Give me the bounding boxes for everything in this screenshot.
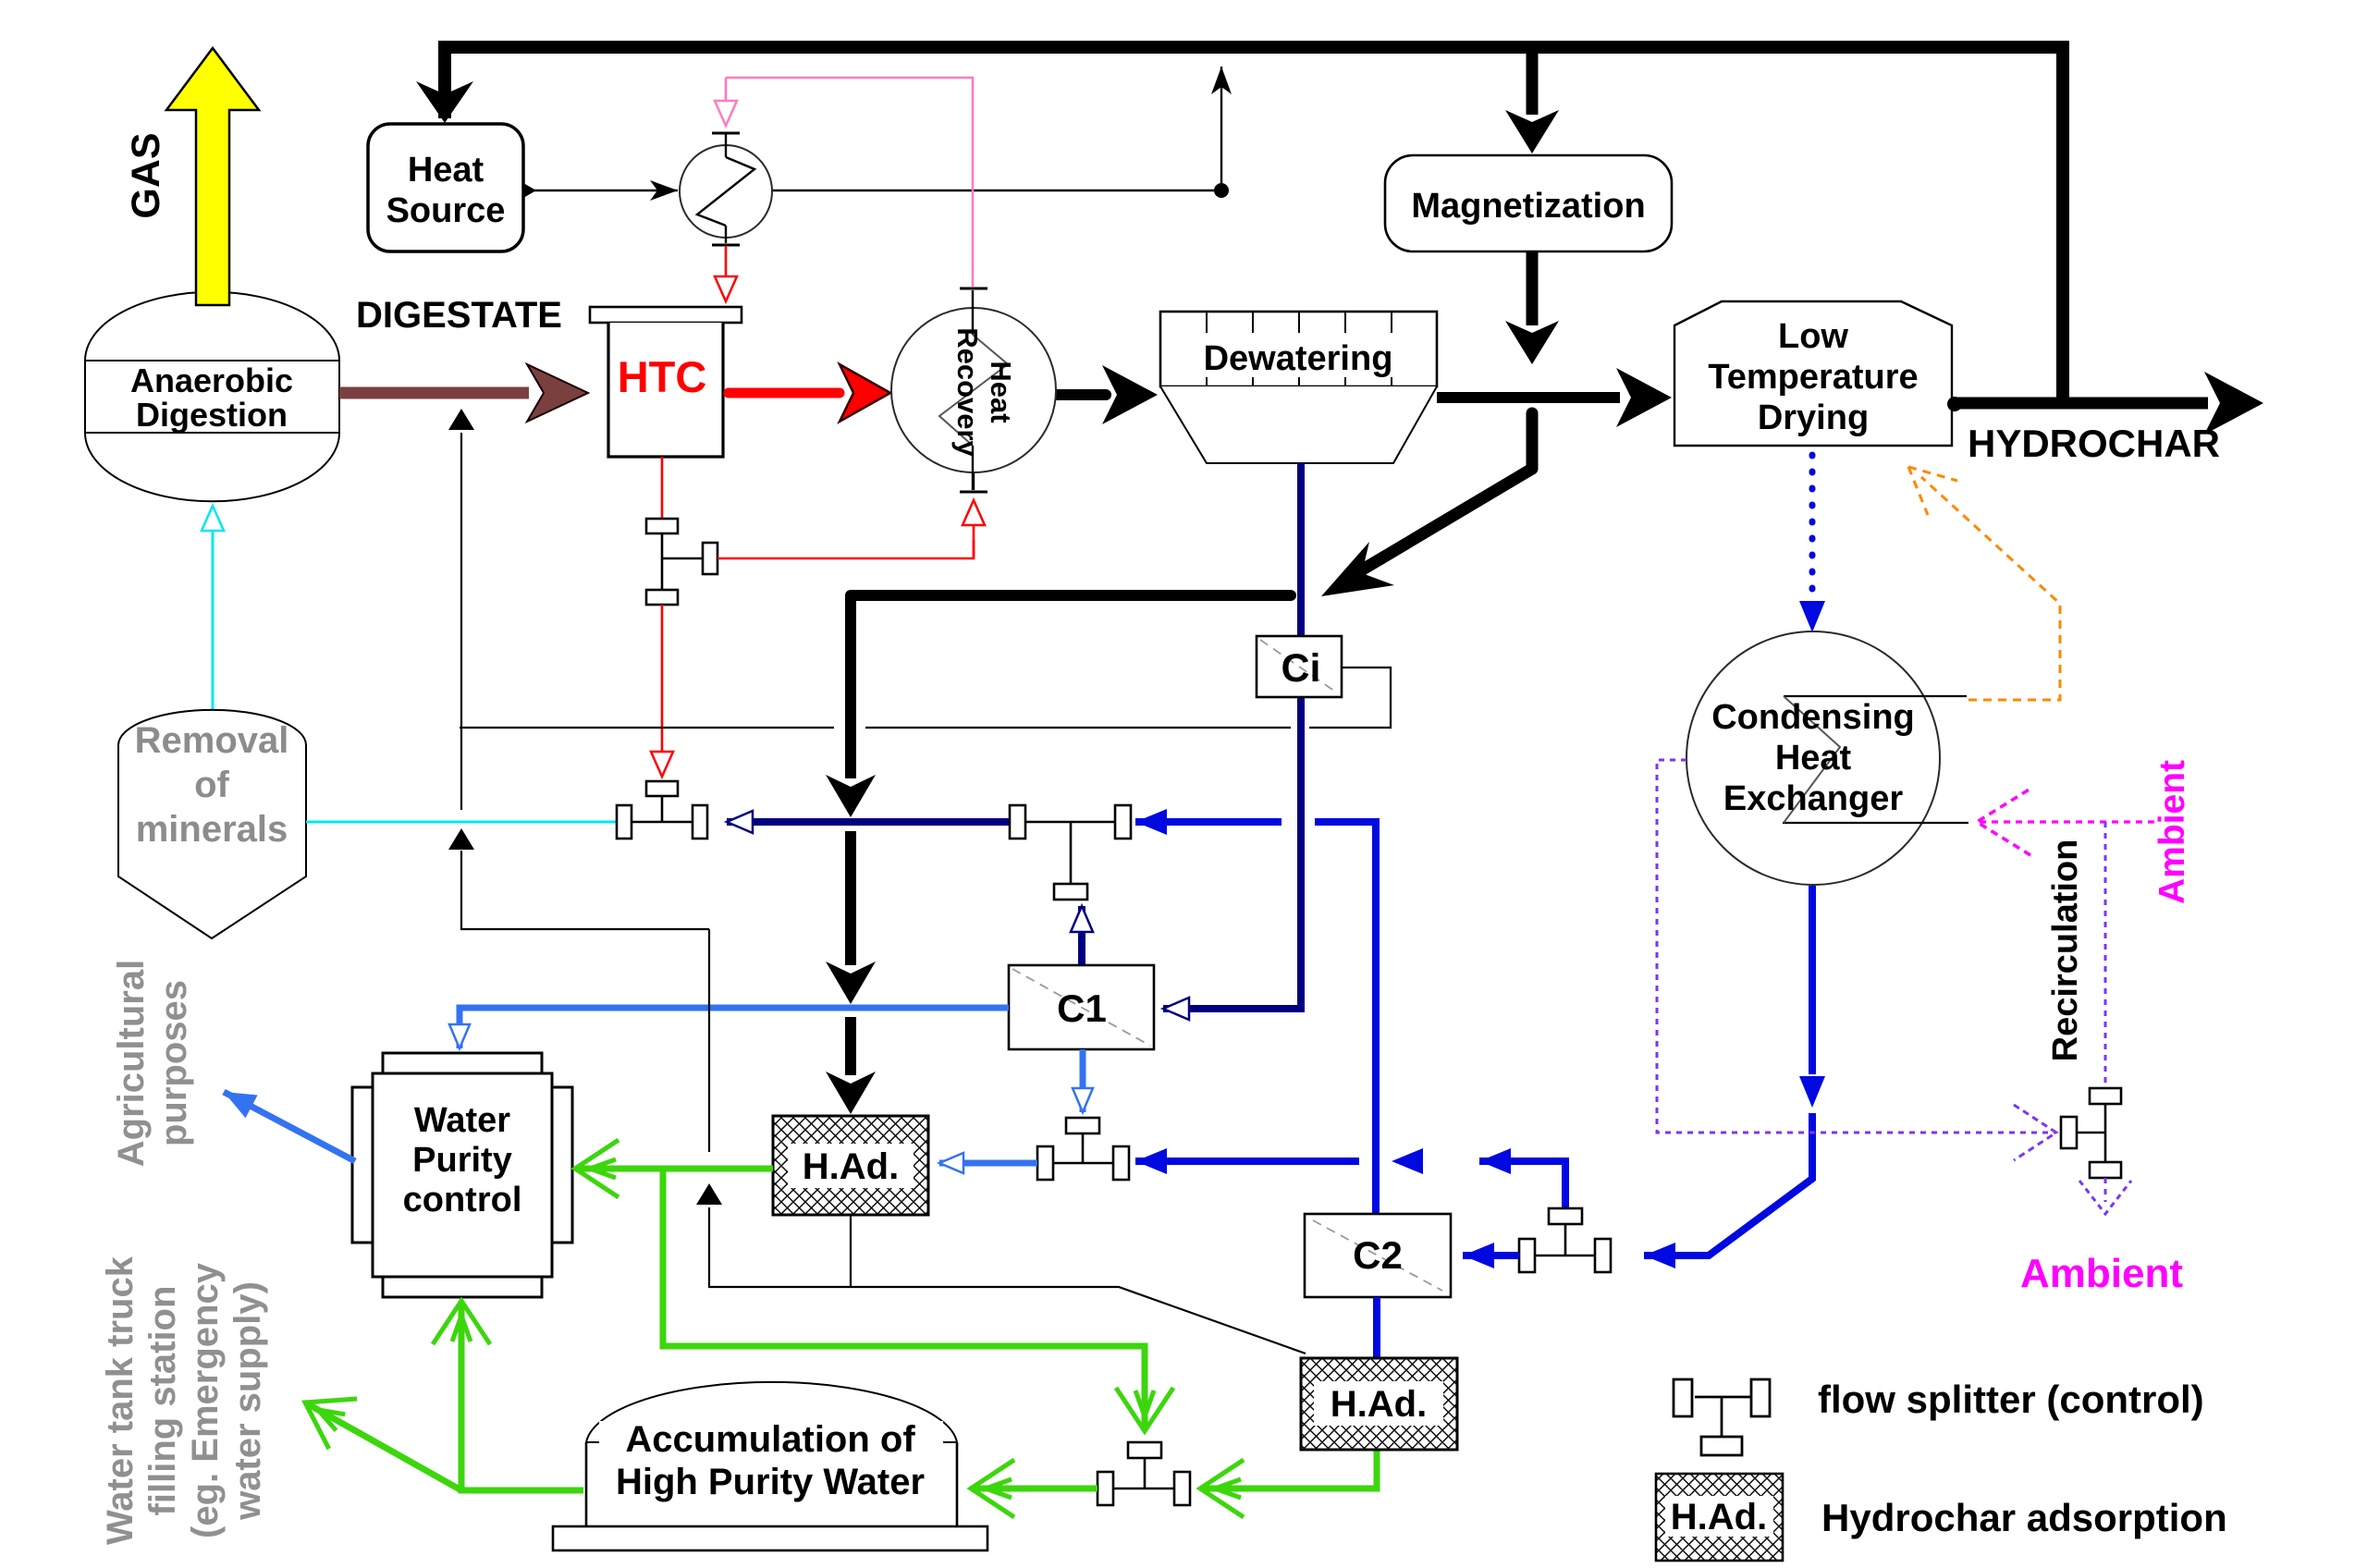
svg-text:HTC: HTC — [618, 352, 707, 401]
svg-text:Recovery: Recovery — [951, 327, 984, 457]
svg-text:HYDROCHAR: HYDROCHAR — [1968, 422, 2220, 465]
legend HAd — [1656, 1474, 1783, 1561]
svg-text:Exchanger: Exchanger — [1723, 779, 1904, 818]
svg-text:Condensing: Condensing — [1711, 698, 1915, 737]
wire Heat Source to HX1 — [523, 190, 678, 191]
wire navy S2 to S1 — [727, 818, 1023, 826]
svg-text:Heat: Heat — [1775, 739, 1852, 778]
svg-text:GAS: GAS — [124, 132, 168, 218]
flow splitter S0 under HTC — [646, 519, 717, 605]
wire royal vertical x1488 to C2 — [1372, 818, 1380, 1214]
svg-text:filling station: filling station — [142, 1286, 183, 1516]
svg-text:C1: C1 — [1057, 986, 1107, 1030]
wire thick branch below Dewatering diagonal — [1527, 413, 1539, 469]
wire green tee down right — [663, 1169, 1145, 1391]
wire thin black HTC gas line — [460, 727, 834, 729]
wire brown digestate arrow — [339, 387, 529, 399]
wire royal CHX to S6 — [1809, 886, 1816, 1074]
component Heat Source U-HS — [368, 124, 523, 251]
heat exchanger HX1 — [680, 145, 772, 238]
wire cyan minerals to S1 — [306, 821, 617, 824]
wire green S4 to tank — [971, 1486, 1098, 1492]
component HTC reactor — [590, 307, 742, 323]
wire dodger WPC to agricultural — [224, 1092, 355, 1161]
wire green HAd2 to S4 — [1200, 1450, 1377, 1488]
svg-text:(eg. Emergency: (eg. Emergency — [185, 1262, 226, 1538]
wire main flow Dewatering to LTD — [1437, 392, 1620, 403]
component anaerobic digester tank — [85, 292, 339, 502]
svg-text:Ci: Ci — [1282, 646, 1321, 691]
svg-text:Water tank truck: Water tank truck — [100, 1256, 141, 1545]
svg-text:Hydrochar adsorption: Hydrochar adsorption — [1821, 1496, 2227, 1539]
wire magenta ambient into CHX — [1977, 820, 2154, 823]
wire green diagonal to truck — [305, 1403, 461, 1490]
component C2 box — [1305, 1214, 1451, 1297]
wire HTC bottom red — [661, 457, 664, 519]
wire green HAd1 to WPC — [575, 1166, 773, 1172]
component GAS arrow — [166, 48, 259, 305]
flow splitter S1 — [617, 781, 707, 839]
svg-text:Removal: Removal — [135, 720, 289, 761]
component Low Temperature Drying — [1674, 301, 1952, 446]
wire HX1 to junction dot — [772, 190, 1221, 191]
component Ci box — [1257, 636, 1342, 697]
svg-text:Drying: Drying — [1758, 398, 1869, 437]
wire red S0 to HR bottom — [717, 540, 974, 558]
component Condensing Heat Exchanger — [1686, 631, 1940, 885]
svg-text:Purity: Purity — [412, 1141, 512, 1180]
wire navy C1 top to S2 — [1078, 906, 1085, 965]
wire main flow LTD to HYDROCHAR arrow — [1947, 398, 2208, 410]
svg-text:purposes: purposes — [153, 980, 194, 1146]
svg-text:Magnetization: Magnetization — [1411, 187, 1645, 226]
flow splitter S4 — [1098, 1442, 1190, 1505]
wire violet CHX left loop — [1657, 760, 2056, 1133]
svg-text:C2: C2 — [1353, 1233, 1403, 1277]
svg-text:Agricultural: Agricultural — [111, 960, 152, 1167]
wire cyan arrow into digester — [212, 527, 215, 714]
wire violet S5 down to Ambient — [2104, 1178, 2107, 1202]
flow splitter S6 — [1519, 1208, 1611, 1272]
svg-text:H.Ad.: H.Ad. — [1671, 1497, 1767, 1537]
svg-text:Water: Water — [414, 1101, 510, 1140]
svg-text:DIGESTATE: DIGESTATE — [356, 295, 562, 336]
label Water tank truck filling station — [100, 1256, 268, 1545]
wire thin black water return — [709, 1207, 1306, 1354]
wire HTC to Heat Recovery red thick — [729, 388, 840, 398]
wire green junction WPC bottom — [461, 1342, 583, 1490]
component HAd2 hydrochar adsorption — [1301, 1358, 1457, 1450]
wire Ci loop — [1309, 668, 1391, 728]
svg-text:H.Ad.: H.Ad. — [803, 1146, 899, 1187]
wire violet recirculation vertical — [2104, 822, 2107, 1087]
legend flow splitter — [1674, 1379, 1770, 1455]
wire HX1 bottom to HTC red — [725, 238, 727, 243]
wire navy horizontal y1256 — [1479, 1158, 1565, 1165]
flow splitter S5 — [2061, 1088, 2121, 1178]
component Heat Recovery exchanger — [891, 308, 1056, 472]
component Water Purity control — [352, 1053, 572, 1297]
wire HAd1 bottom stub — [850, 1215, 852, 1287]
wire thick horizontal y644 — [851, 590, 1291, 601]
svg-text:Ambient: Ambient — [2152, 760, 2192, 904]
component accumulation tank — [553, 1382, 987, 1550]
wire navy Dewatering down to C1 — [1193, 463, 1301, 1009]
wire royal horizontal y889 to S2 — [1315, 818, 1376, 826]
wire main flow HR to Dewatering — [1047, 389, 1106, 400]
wire dodger C1 bottom to S3 — [1080, 1049, 1086, 1112]
svg-text:Low: Low — [1778, 317, 1848, 356]
wire red S0 down to S1 — [661, 605, 664, 777]
svg-text:of: of — [194, 765, 229, 805]
svg-text:minerals: minerals — [136, 809, 288, 850]
svg-text:Ambient: Ambient — [2020, 1251, 2183, 1296]
svg-text:H.Ad.: H.Ad. — [1331, 1384, 1427, 1425]
svg-text:Anaerobic: Anaerobic — [130, 361, 293, 399]
flow splitter S3 — [1037, 1118, 1129, 1180]
svg-text:Recirculation: Recirculation — [2046, 839, 2085, 1062]
wire thick vertical x920 seg2 — [845, 831, 856, 965]
component Dewatering — [1160, 312, 1437, 463]
wire magnetization to dewatering line — [1527, 251, 1539, 325]
svg-text:Dewatering: Dewatering — [1204, 339, 1393, 378]
wire junction dot at LTD output — [1947, 397, 1962, 411]
svg-text:control: control — [403, 1181, 522, 1219]
svg-text:High Purity Water: High Purity Water — [616, 1462, 925, 1502]
wire magnetization drop line — [1527, 45, 1539, 115]
svg-text:Heat: Heat — [985, 361, 1017, 423]
svg-text:Heat: Heat — [408, 151, 484, 190]
wire junction dot up arrow — [1220, 67, 1222, 190]
component Removal of minerals — [118, 710, 306, 938]
wire dodger S3 to HAd1 — [939, 1160, 1037, 1167]
wire orange dashed recycle hint — [1921, 477, 2060, 700]
svg-text:Digestion: Digestion — [136, 396, 288, 434]
wire pink loop — [726, 78, 973, 287]
wire blue dotted LTD to CHX — [1809, 455, 1816, 612]
svg-text:water supply): water supply) — [227, 1281, 268, 1521]
wire thick black recycle top line — [445, 47, 2063, 403]
component HAd1 hydrochar adsorption — [773, 1116, 928, 1215]
wire royal C2 bottom to HAd2 — [1373, 1297, 1380, 1358]
flow splitter S2 — [1010, 805, 1131, 900]
wire royal S6 to C2 — [1463, 1252, 1519, 1259]
svg-text:Accumulation of: Accumulation of — [625, 1419, 915, 1460]
wire thick vertical x920 seg1 — [845, 595, 856, 778]
wire dodger C1 to WPC — [460, 1008, 1009, 1034]
svg-text:flow splitter (control): flow splitter (control) — [1818, 1378, 2204, 1421]
svg-text:Temperature: Temperature — [1708, 358, 1918, 397]
wire thick vertical x920 seg3 — [845, 1017, 856, 1075]
component C1 box — [1009, 965, 1154, 1049]
component Magnetization — [1385, 155, 1672, 251]
svg-text:Source: Source — [386, 191, 506, 230]
wire arrow into Heat Source top — [416, 81, 473, 123]
